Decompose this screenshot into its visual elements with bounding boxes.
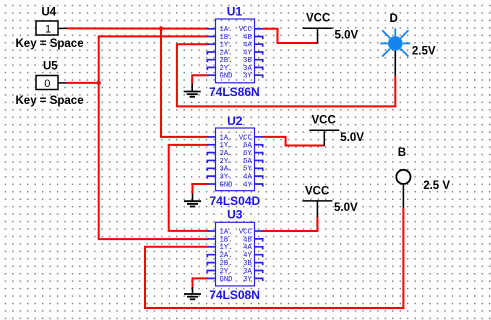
svg-text:VCC: VCC xyxy=(312,115,336,127)
svg-text:2A.: 2A. xyxy=(220,150,233,158)
svg-text:VCC: VCC xyxy=(239,134,253,142)
U2 pin VCC xyxy=(255,136,263,138)
svg-text:U5: U5 xyxy=(43,60,58,72)
svg-text:2Y.: 2Y. xyxy=(220,65,233,73)
wire U3 1Y to probe B (bottom run) xyxy=(145,208,403,308)
ground GND2 xyxy=(184,194,201,207)
svg-text:GND: GND xyxy=(220,276,233,284)
U3 pin VCC xyxy=(255,230,263,232)
junction dot net A xyxy=(159,26,163,30)
U2 pin 6A xyxy=(255,145,263,148)
switch U5 xyxy=(16,60,84,107)
U2 pin 2Y xyxy=(207,160,215,163)
wire U2 VCC pin to VCC2 xyxy=(263,137,325,146)
wire probe B lead (black) xyxy=(402,184,404,209)
U1 pin 4A xyxy=(255,44,263,47)
svg-text:3Y: 3Y xyxy=(243,276,252,284)
wire U1 GND pin to ground xyxy=(192,75,208,84)
svg-text:1Y.: 1Y. xyxy=(220,244,233,252)
U3 pin GND xyxy=(208,277,216,279)
U3 pin 1B xyxy=(208,238,216,240)
svg-text:74LS86N: 74LS86N xyxy=(209,85,260,99)
svg-text:3Y: 3Y xyxy=(243,73,252,81)
svg-text:1: 1 xyxy=(45,23,51,35)
ground GND1 xyxy=(184,84,201,97)
svg-text:4A: 4A xyxy=(243,174,252,182)
svg-text:VCC: VCC xyxy=(305,186,329,198)
U1 pin 2B xyxy=(207,60,215,63)
U2 pin 6Y xyxy=(255,153,263,156)
svg-text:5Y: 5Y xyxy=(243,166,252,174)
U1 pin 3B xyxy=(255,60,263,63)
op-amp U2 74LS04D hex inverter chip xyxy=(207,114,262,208)
U1 pin GND xyxy=(208,74,216,76)
U2 pin 3Y xyxy=(207,176,215,179)
svg-text:74LS08N: 74LS08N xyxy=(209,288,260,302)
svg-text:4Y: 4Y xyxy=(243,181,252,189)
U3 pin 3Y xyxy=(255,278,263,281)
U1 pin 4Y xyxy=(255,52,263,55)
svg-text:1A.: 1A. xyxy=(220,134,233,142)
power VCC2 symbol xyxy=(309,115,339,146)
U3 pin 1A xyxy=(208,230,216,232)
U3 pin 2A xyxy=(207,255,215,258)
svg-text:1Y.: 1Y. xyxy=(220,142,233,150)
power VCC3 symbol xyxy=(302,186,332,217)
U1 pin 3A xyxy=(255,67,263,70)
U3 pin 4A xyxy=(255,247,263,250)
wire U1 1Y to probe D xyxy=(177,44,395,106)
U3 pin 2B xyxy=(207,263,215,266)
switch U4 xyxy=(16,7,84,50)
U2 pin 4Y xyxy=(255,184,263,187)
wire probe D lead (black) xyxy=(394,50,396,76)
wire U1 VCC pin to VCC1 xyxy=(263,29,318,43)
svg-text:2A.: 2A. xyxy=(220,252,233,260)
svg-text:U3: U3 xyxy=(227,208,243,222)
wire U3 VCC pin to VCC3 xyxy=(263,217,318,232)
svg-text:Key = Space: Key = Space xyxy=(16,95,84,107)
wire net A branch: junction down to U2 pin 1A xyxy=(161,28,209,136)
U2 pin 2A xyxy=(207,153,215,156)
svg-text:1B.: 1B. xyxy=(220,236,233,244)
wire net B: U5 to junction xyxy=(67,82,99,84)
svg-text:4Y: 4Y xyxy=(243,252,252,260)
U3 pin 1Y xyxy=(208,246,216,248)
wire U2 GND pin to ground xyxy=(193,184,209,194)
ground GND3 xyxy=(184,287,201,299)
U1 pin 1A xyxy=(208,28,216,30)
wire U3 GND pin to ground xyxy=(193,278,209,287)
svg-text:5.0V: 5.0V xyxy=(340,132,364,144)
wire U5 output stub (black) xyxy=(58,82,67,84)
svg-text:5.0V: 5.0V xyxy=(334,202,358,214)
U2 pin 1A xyxy=(208,136,216,138)
U1 pin VCC xyxy=(255,28,263,30)
U1 pin 1B xyxy=(208,36,216,38)
svg-text:4A: 4A xyxy=(243,42,252,50)
U1 pin 1Y xyxy=(208,43,216,45)
probe B (off, white) xyxy=(396,147,410,184)
op-amp U3 74LS08N quad AND chip xyxy=(207,208,262,302)
svg-text:2B.: 2B. xyxy=(220,260,233,268)
U1 pin 3Y xyxy=(255,75,263,78)
svg-text:2.5 V: 2.5 V xyxy=(423,180,450,192)
U2 pin 1Y xyxy=(208,144,216,146)
wire U4 output stub (black) xyxy=(58,27,67,29)
svg-text:U4: U4 xyxy=(42,7,57,19)
svg-text:2Y.: 2Y. xyxy=(220,158,233,166)
U3 pin 3B xyxy=(255,263,263,266)
junction dot net B xyxy=(97,81,101,85)
svg-text:74LS04D: 74LS04D xyxy=(210,194,261,208)
U2 pin GND xyxy=(208,183,216,185)
U1 pin 4B xyxy=(255,37,263,40)
wire U2 1Y to U3 1A xyxy=(169,145,209,231)
svg-text:2Y.: 2Y. xyxy=(220,268,233,276)
U2 pin 5Y xyxy=(255,168,263,171)
U3 pin 4B xyxy=(255,239,263,242)
svg-text:GND: GND xyxy=(220,181,233,189)
U2 pin 5A xyxy=(255,160,263,163)
svg-text:5A: 5A xyxy=(243,158,252,166)
op-amp U1 74LS86N quad XOR chip xyxy=(207,4,262,99)
svg-text:3B: 3B xyxy=(243,260,252,268)
svg-text:0: 0 xyxy=(44,78,50,90)
svg-text:6A: 6A xyxy=(243,142,252,150)
U2 pin 4A xyxy=(255,176,263,179)
svg-text:Key = Space: Key = Space xyxy=(16,38,84,50)
U3 pin 2Y xyxy=(207,271,215,274)
svg-text:2.5V: 2.5V xyxy=(412,46,436,58)
U3 pin 3A xyxy=(255,271,263,274)
svg-text:3Y.: 3Y. xyxy=(220,174,233,182)
svg-text:U2: U2 xyxy=(227,114,243,128)
U1 pin 2A xyxy=(207,52,215,55)
svg-text:1A.: 1A. xyxy=(220,228,233,236)
power VCC1 symbol xyxy=(303,13,333,44)
svg-text:D: D xyxy=(390,13,398,25)
svg-text:1Y.: 1Y. xyxy=(220,42,233,50)
svg-text:3A: 3A xyxy=(243,65,252,73)
svg-text:6Y: 6Y xyxy=(243,150,252,158)
svg-text:VCC: VCC xyxy=(306,13,330,25)
U2 pin 3A xyxy=(207,168,215,171)
svg-text:B: B xyxy=(398,147,406,159)
svg-text:U1: U1 xyxy=(227,4,243,18)
wire net B vertical trunk xyxy=(99,36,209,239)
wire net A: U4 to U1 pin 1A xyxy=(67,27,209,29)
probe D (lit, blue) xyxy=(380,13,410,57)
svg-text:4B: 4B xyxy=(243,236,252,244)
U3 pin 4Y xyxy=(255,255,263,258)
svg-text:3A: 3A xyxy=(243,268,252,276)
svg-text:5.0V: 5.0V xyxy=(335,30,359,42)
svg-text:GND: GND xyxy=(220,73,233,81)
svg-text:4A: 4A xyxy=(243,244,252,252)
svg-text:VCC: VCC xyxy=(239,228,253,236)
svg-text:3A.: 3A. xyxy=(220,166,233,174)
U1 pin 2Y xyxy=(207,67,215,70)
